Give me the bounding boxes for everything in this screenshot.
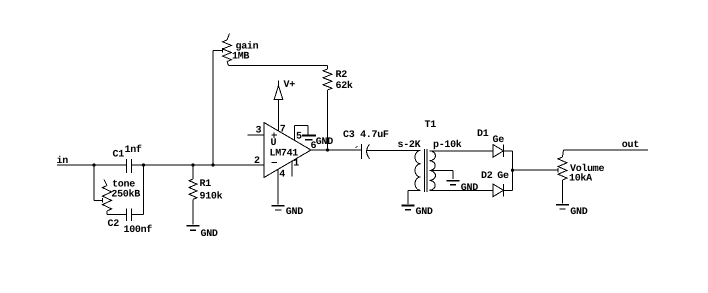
svg-text:Ge: Ge [493,135,505,146]
wire: gain wiper down to rail [213,50,223,165]
wire: C2 up to rail [132,165,144,215]
potentiometer tone 250kB wiper arrow [102,198,104,203]
wire: junction to volume wiper [513,169,559,171]
potentiometer gain 1MB wiper arrow [222,48,224,53]
wire: volume bottom to ground [562,180,564,203]
svg-text:4: 4 [279,170,285,181]
ground: below R1 [187,226,218,240]
svg-text:V+: V+ [284,80,296,91]
op-amp pin 1 stub [292,158,299,176]
potentiometer tone 250kB body [103,180,141,215]
svg-text:Ge: Ge [497,171,509,182]
svg-text:5: 5 [296,132,302,143]
wire: junction down to tone wiper [94,165,103,200]
svg-text:R1: R1 [200,179,212,190]
svg-text:1: 1 [293,158,299,169]
svg-text:1nf: 1nf [125,144,142,156]
svg-text:62k: 62k [336,80,353,92]
ground: pin 5 [302,136,333,148]
wire: gain bottom to R2 top [229,65,328,69]
wire: C3 to transformer primary [367,150,421,152]
svg-text:C2: C2 [108,219,120,230]
svg-text:R2: R2 [336,70,348,81]
svg-text:GND: GND [570,207,587,218]
transformer T1 core [425,120,437,192]
svg-text:GND: GND [201,229,218,240]
svg-text:GND: GND [316,137,333,148]
resistor R2 62k [323,69,353,92]
node: R1 top junction [191,163,194,166]
op-amp pin 4 stub [278,169,285,204]
svg-text:C3 4.7uF: C3 4.7uF [343,130,389,141]
svg-text:250kB: 250kB [111,188,140,200]
label: out [622,140,639,151]
potentiometer Volume 10kA wiper arrow [557,168,559,173]
svg-text:D1: D1 [477,129,489,140]
ground: volume [556,205,588,218]
capacitor C2 100nf [107,209,152,237]
svg-text:out: out [622,140,639,151]
svg-text:p-10k: p-10k [433,139,462,151]
capacitor C3 4.7uF polarized [343,130,389,159]
op-amp pin 3 stub [248,125,265,136]
svg-text:10kA: 10kA [569,173,592,185]
wire: diode outputs joined [504,151,513,191]
wire: secondary top to D1 [430,150,494,152]
svg-text:2: 2 [254,156,260,167]
capacitor C1 1nf [113,144,142,173]
node: output/R2 junction [326,148,329,151]
op-amp pin 6 output label [311,141,317,152]
wire: secondary center tap [430,171,453,180]
svg-text:GND: GND [286,207,303,218]
resistor R1 910k [189,165,223,225]
wire: R2 down to output node [327,90,329,150]
node: in/tone junction [92,163,95,166]
wire: volume top to out [564,149,649,151]
ground: below pin 4 [272,206,304,219]
svg-text:GND: GND [416,207,433,218]
svg-text:in: in [57,155,69,167]
svg-text:100nf: 100nf [124,224,153,236]
svg-text:U: U [271,138,277,149]
wire: op-amp output to C3 [311,149,362,151]
label: in [57,155,69,167]
potentiometer gain 1MB body [223,34,259,66]
node: C1 right junction [142,163,145,166]
svg-text:C1: C1 [113,150,125,161]
node: gain wiper junction [211,163,214,166]
ground: center tap [447,181,479,194]
node: detector output junction [511,169,514,172]
transformer T1 primary s-2K [398,140,421,191]
svg-text:910k: 910k [200,190,223,202]
svg-text:T1: T1 [425,120,437,131]
op-amp pin 2 label [254,156,260,167]
svg-text:3: 3 [256,125,262,136]
svg-text:D2: D2 [481,171,493,182]
potentiometer Volume 10kA body [558,150,605,185]
wire: primary bottom to ground [408,190,421,204]
transformer T1 secondary p-10k [430,139,462,191]
wire: input rail from "in" to op-amp pin 2 [57,164,264,166]
op-amp pin 5 hook to ground [295,126,309,143]
svg-text:7: 7 [280,125,286,136]
svg-text:1MB: 1MB [232,52,249,63]
svg-text:GND: GND [461,183,478,194]
ground: primary [402,206,433,219]
op-amp U LM741 triangle [264,123,311,178]
wire: secondary bottom to D2 [430,189,494,191]
svg-text:s-2K: s-2K [398,140,421,151]
op-amp pin 7 with V+ supply [274,80,295,136]
diode D1 Ge [477,129,504,157]
diode D2 Ge [481,171,509,197]
